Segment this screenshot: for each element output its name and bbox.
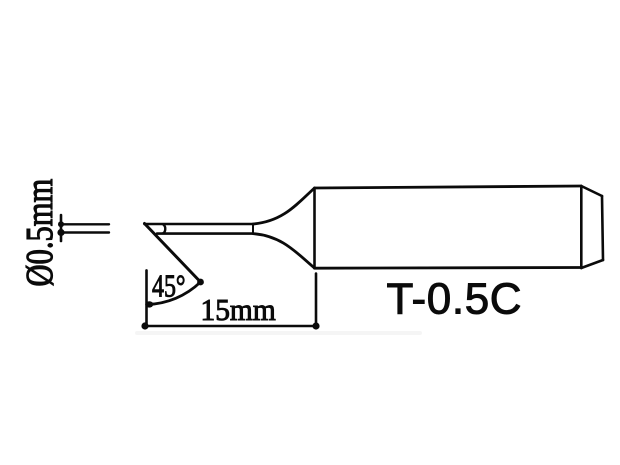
rod end tick xyxy=(252,224,254,234)
svg-text:T-0.5C: T-0.5C xyxy=(387,275,523,324)
flare top curve xyxy=(253,188,315,224)
diameter leader line bottom xyxy=(61,231,109,233)
length dimension dot right xyxy=(312,322,319,329)
flare bottom curve xyxy=(253,234,315,268)
angle arc arrowhead xyxy=(145,301,153,307)
length dimension line xyxy=(145,325,316,328)
tip bottom edge xyxy=(157,232,253,235)
tip bevel cut face diagonal xyxy=(145,224,201,283)
svg-text:Ø0.5mm: Ø0.5mm xyxy=(19,179,61,287)
tip face ellipse edge xyxy=(163,225,165,234)
diameter dimension dot top xyxy=(58,221,64,227)
faint scan streak xyxy=(137,331,420,335)
cylinder bottom edge xyxy=(315,266,582,270)
svg-text:45°: 45° xyxy=(152,269,186,304)
bevel angle vertex dot xyxy=(197,279,204,286)
cylinder left edge xyxy=(313,188,316,268)
cylinder top edge xyxy=(315,186,582,188)
diameter leader line top xyxy=(61,223,109,225)
end cap right edge xyxy=(602,196,603,260)
diameter dimension dot bottom xyxy=(57,229,64,236)
end cap bottom chamfer xyxy=(581,260,603,268)
angle arc xyxy=(147,282,201,305)
length extension line (right, vertical) xyxy=(315,274,318,327)
cylinder right shoulder line xyxy=(580,186,583,268)
diameter dimension extension line (vertical) xyxy=(60,215,63,241)
svg-text:15mm: 15mm xyxy=(201,292,277,327)
angle extension line (vertical) xyxy=(145,270,148,326)
end cap top chamfer xyxy=(581,186,602,196)
tip top edge xyxy=(145,223,254,226)
length dimension dot left xyxy=(141,322,148,329)
